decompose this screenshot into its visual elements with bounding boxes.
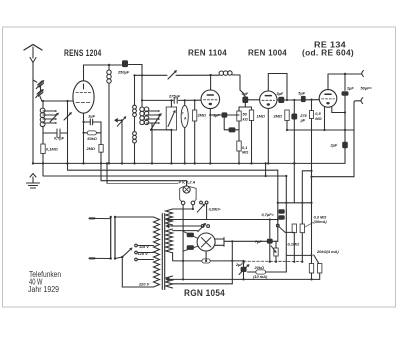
svg-text:(10 mA): (10 mA)	[253, 274, 268, 279]
svg-text:1MΩ: 1MΩ	[257, 114, 265, 119]
svg-text:3µF: 3µF	[88, 114, 95, 119]
svg-text:115 V: 115 V	[139, 244, 149, 249]
svg-text:20kΩ(4 mA): 20kΩ(4 mA)	[316, 249, 339, 254]
svg-text:4 V, 0,2 A: 4 V, 0,2 A	[178, 180, 196, 185]
svg-text:220 V: 220 V	[138, 282, 150, 287]
svg-text:2MΩ: 2MΩ	[197, 113, 206, 118]
svg-text:250µF: 250µF	[117, 70, 130, 75]
svg-text:µF: µF	[300, 118, 306, 123]
svg-text:0,1MΩ: 0,1MΩ	[288, 242, 300, 247]
svg-text:REN 1004: REN 1004	[248, 47, 287, 57]
svg-text:5µF: 5µF	[242, 91, 249, 96]
svg-text:7µF: 7µF	[255, 239, 262, 244]
svg-text:MΩ: MΩ	[242, 150, 248, 155]
svg-text:50µF≈: 50µF≈	[361, 86, 373, 91]
svg-text:125 V: 125 V	[138, 251, 149, 256]
svg-text:275µF: 275µF	[168, 94, 181, 99]
svg-text:0,1MΩ: 0,1MΩ	[46, 147, 58, 152]
svg-text:50kΩ: 50kΩ	[87, 136, 97, 141]
svg-text:0,7µF: 0,7µF	[54, 136, 65, 141]
svg-text:kΩ: kΩ	[243, 117, 248, 122]
svg-text:7: 7	[182, 112, 184, 116]
svg-text:Jahr 1929: Jahr 1929	[28, 285, 59, 294]
svg-text:0,7µF≈: 0,7µF≈	[262, 212, 275, 217]
svg-text:2µF: 2µF	[235, 262, 243, 267]
svg-text:RGN 1054: RGN 1054	[184, 288, 225, 298]
svg-text:REN 1104: REN 1104	[188, 47, 227, 57]
svg-text:20kΩ: 20kΩ	[254, 265, 265, 270]
svg-text:2µF: 2µF	[330, 143, 338, 148]
svg-text:(30mA): (30mA)	[314, 219, 328, 224]
svg-text:2MΩ: 2MΩ	[273, 114, 282, 119]
svg-text:0,2MΩ≈: 0,2MΩ≈	[209, 207, 221, 211]
svg-text:2MΩ: 2MΩ	[86, 146, 95, 151]
svg-text:RENS 1204: RENS 1204	[64, 48, 102, 58]
svg-text:MΩ: MΩ	[315, 116, 321, 121]
svg-text:(od. RE 604): (od. RE 604)	[302, 49, 354, 58]
svg-text:2µF: 2µF	[346, 86, 354, 91]
svg-text:5µF: 5µF	[277, 91, 284, 96]
svg-text:5µF: 5µF	[298, 91, 305, 96]
svg-text:1µF: 1µF	[213, 113, 220, 118]
